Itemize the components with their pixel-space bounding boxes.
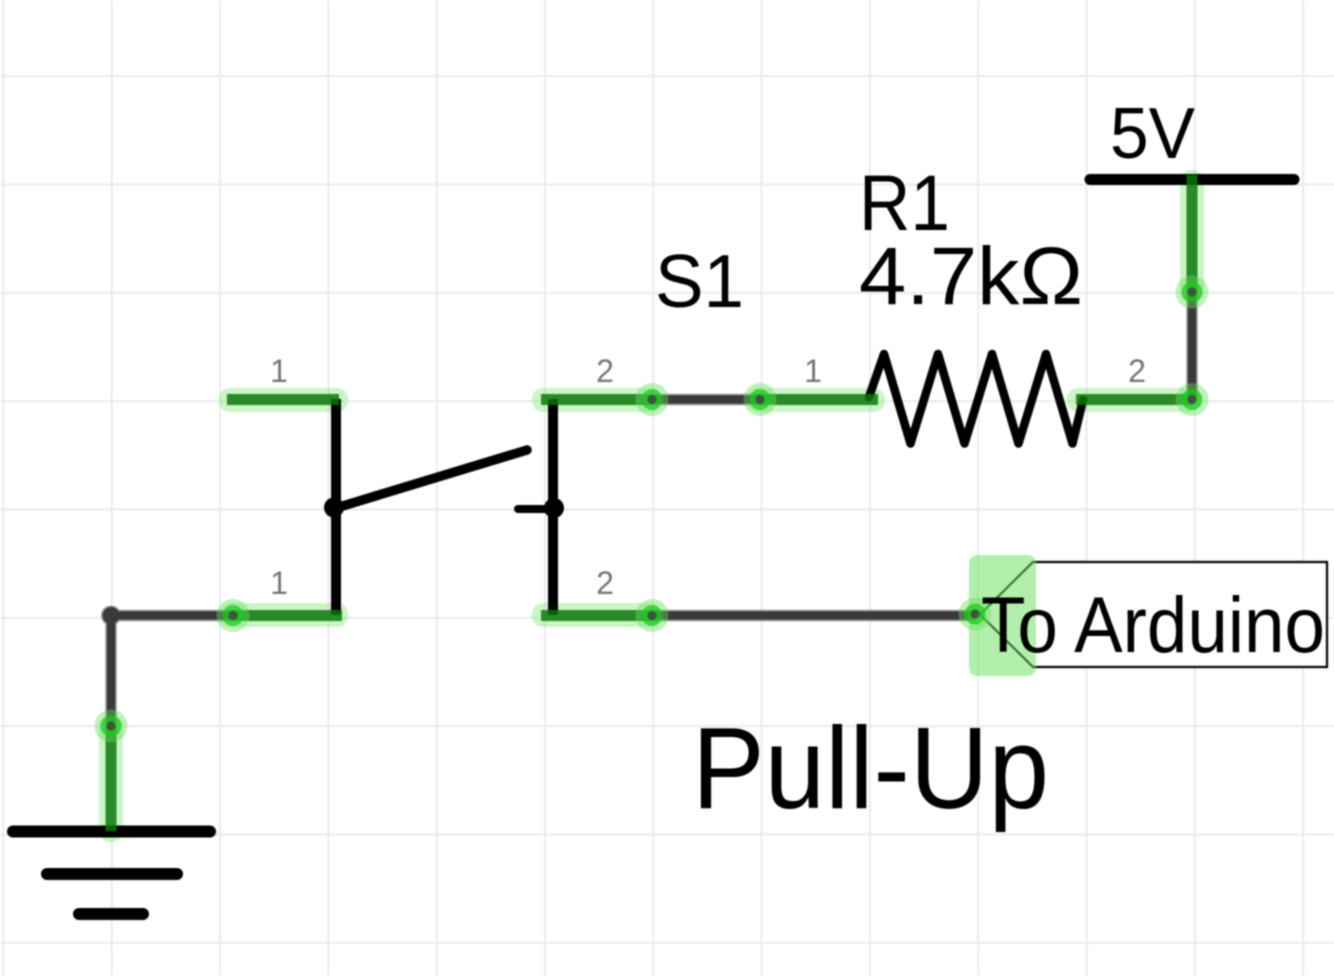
svg-text:S1: S1 (655, 239, 744, 323)
svg-text:1: 1 (270, 353, 288, 389)
svg-text:2: 2 (1128, 353, 1146, 389)
svg-text:2: 2 (596, 565, 614, 601)
svg-text:1: 1 (804, 353, 822, 389)
svg-text:Pull-Up: Pull-Up (692, 703, 1049, 833)
svg-text:1: 1 (270, 565, 288, 601)
svg-text:4.7kΩ: 4.7kΩ (859, 231, 1083, 322)
svg-text:5V: 5V (1110, 94, 1195, 174)
svg-text:2: 2 (596, 353, 614, 389)
svg-text:To Arduino: To Arduino (981, 580, 1325, 669)
